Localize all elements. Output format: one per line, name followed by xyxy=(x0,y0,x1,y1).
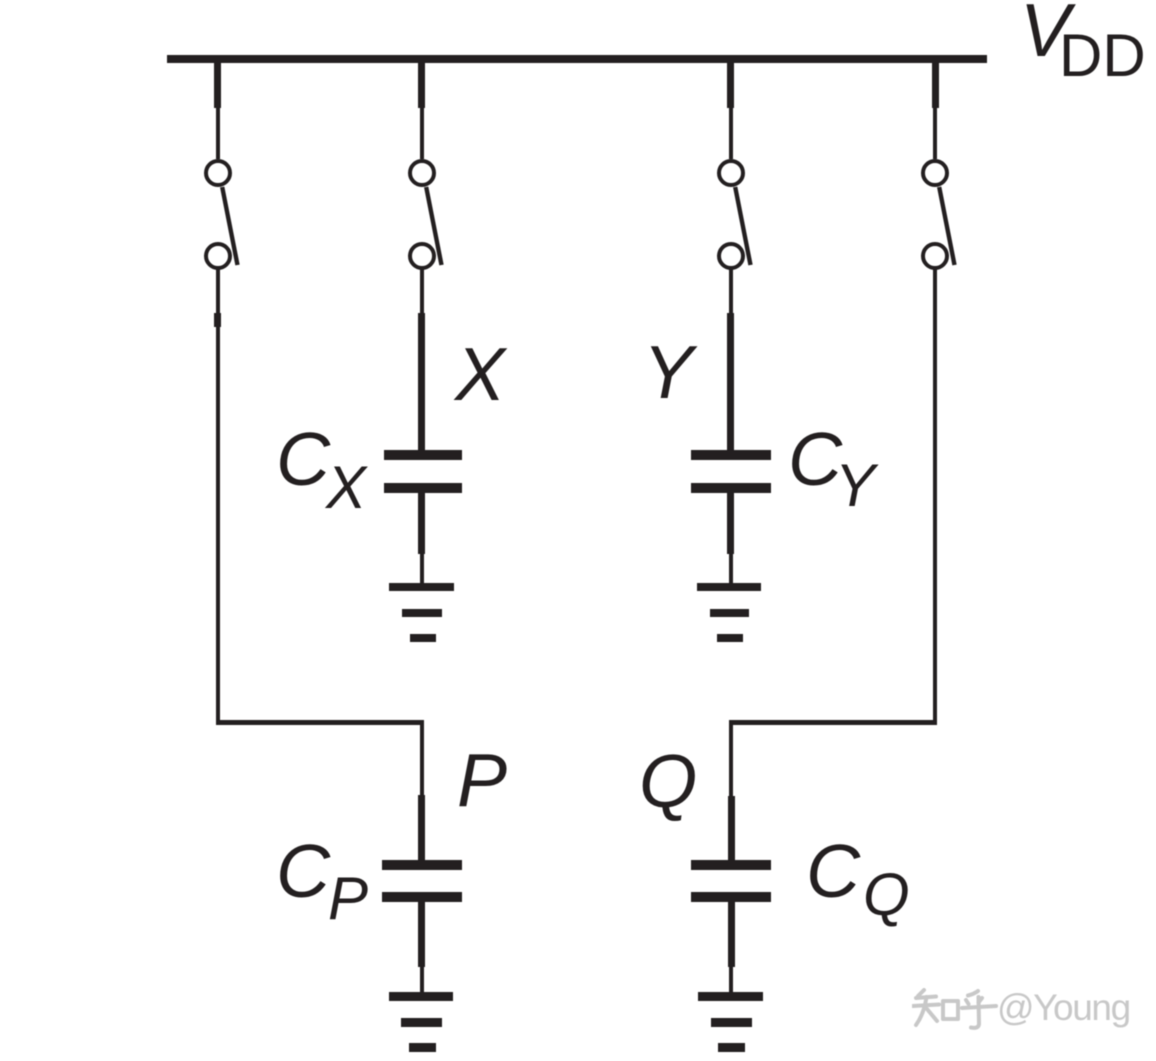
switch S3 upper contact xyxy=(717,159,745,187)
label VDD xyxy=(1020,0,1070,68)
ground under CP xyxy=(389,992,453,1001)
wire: thin segment above switch S1 xyxy=(216,107,220,159)
switch S4 upper contact xyxy=(921,159,949,187)
wire: thin segment above switch S4 xyxy=(933,107,937,159)
capacitor CQ top plate xyxy=(691,860,770,870)
capacitor CX bottom plate xyxy=(384,483,463,493)
wire: branch 4 long vertical xyxy=(933,269,937,725)
wire: node P vertical thick xyxy=(418,795,425,860)
wire: below CY thick xyxy=(727,493,734,554)
wire: node Q vertical thick xyxy=(728,796,735,861)
ground under CY xyxy=(697,583,761,591)
wire: branch 1 long vertical xyxy=(216,327,220,725)
wire: node X thick segment xyxy=(418,313,425,451)
switch S4 lower contact xyxy=(921,242,949,270)
capacitor CP top plate xyxy=(382,860,462,870)
wire: below switch S3 thin xyxy=(729,269,733,313)
wire: stub from rail, branch 3 xyxy=(727,62,734,108)
switch S1 arm xyxy=(217,185,243,267)
ground under CQ xyxy=(698,992,762,1001)
node Q label xyxy=(639,744,697,819)
wire: stub from rail, branch 2 xyxy=(418,62,425,108)
switch S1 lower contact xyxy=(204,242,232,270)
VDD rail xyxy=(167,55,987,63)
wire: below switch S2 thin xyxy=(420,269,424,313)
wire: node Y thick segment xyxy=(727,313,734,451)
wire: below CQ thin xyxy=(729,966,733,992)
wire: below CP thin xyxy=(420,966,424,992)
label CY xyxy=(788,422,842,497)
ground under CX xyxy=(389,583,454,591)
node X label xyxy=(455,337,505,412)
switch S4 arm xyxy=(934,185,960,267)
switch S3 arm xyxy=(730,185,756,267)
label CQ xyxy=(806,834,860,909)
wire: node P vertical thin xyxy=(420,722,424,796)
wire: below CY thin xyxy=(729,553,733,583)
label CP xyxy=(276,834,330,909)
wire: below CQ thick xyxy=(728,902,735,967)
wire: below switch S1 thin xyxy=(216,269,220,314)
node Y label xyxy=(643,335,693,410)
wire: below CX thin xyxy=(420,553,424,583)
capacitor CX top plate xyxy=(384,450,463,460)
wire: below CX thick xyxy=(418,493,425,554)
label CX xyxy=(276,422,330,497)
wire: horizontal jog to node P xyxy=(216,720,424,725)
switch S2 arm xyxy=(421,185,447,267)
wire: stub from rail, branch 1 xyxy=(214,62,221,108)
switch S2 upper contact xyxy=(408,159,436,187)
wire: below CP thick xyxy=(418,902,425,967)
capacitor CQ bottom plate xyxy=(691,892,770,902)
capacitor CY bottom plate xyxy=(691,483,771,493)
wire: stub from rail, branch 4 xyxy=(932,62,939,108)
wire: node Q vertical thin xyxy=(729,722,733,796)
wire: branch 1 thick joint xyxy=(214,313,221,328)
wire: horizontal jog to node Q xyxy=(729,720,937,725)
wire: thin segment above switch S3 xyxy=(729,107,733,159)
capacitor CY top plate xyxy=(691,450,771,460)
switch S3 lower contact xyxy=(717,242,745,270)
node P label xyxy=(457,743,507,818)
capacitor CP bottom plate xyxy=(382,892,462,902)
wire: thin segment above switch S2 xyxy=(420,107,424,159)
switch S2 lower contact xyxy=(408,242,436,270)
watermark 知乎 @Young xyxy=(912,988,998,1032)
switch S1 upper contact xyxy=(204,159,232,187)
